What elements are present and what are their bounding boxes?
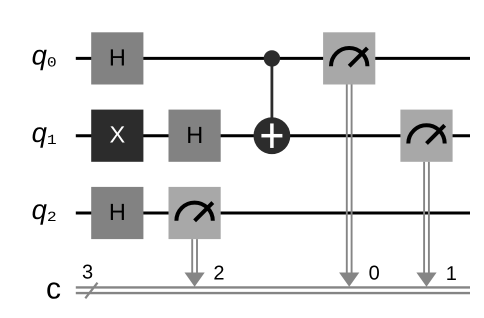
svg-text:c: c xyxy=(46,273,61,306)
svg-text:0: 0 xyxy=(47,56,57,72)
svg-text:2: 2 xyxy=(47,210,57,226)
svg-text:q: q xyxy=(32,117,48,148)
svg-text:1: 1 xyxy=(446,263,457,285)
svg-text:H: H xyxy=(109,45,126,71)
svg-text:0: 0 xyxy=(369,263,380,285)
svg-text:q: q xyxy=(32,40,48,71)
svg-text:H: H xyxy=(109,199,126,225)
svg-text:q: q xyxy=(32,194,48,225)
svg-text:H: H xyxy=(186,122,203,148)
svg-text:2: 2 xyxy=(213,263,224,285)
svg-text:X: X xyxy=(110,122,126,148)
svg-text:3: 3 xyxy=(82,262,93,284)
svg-text:1: 1 xyxy=(47,133,57,149)
